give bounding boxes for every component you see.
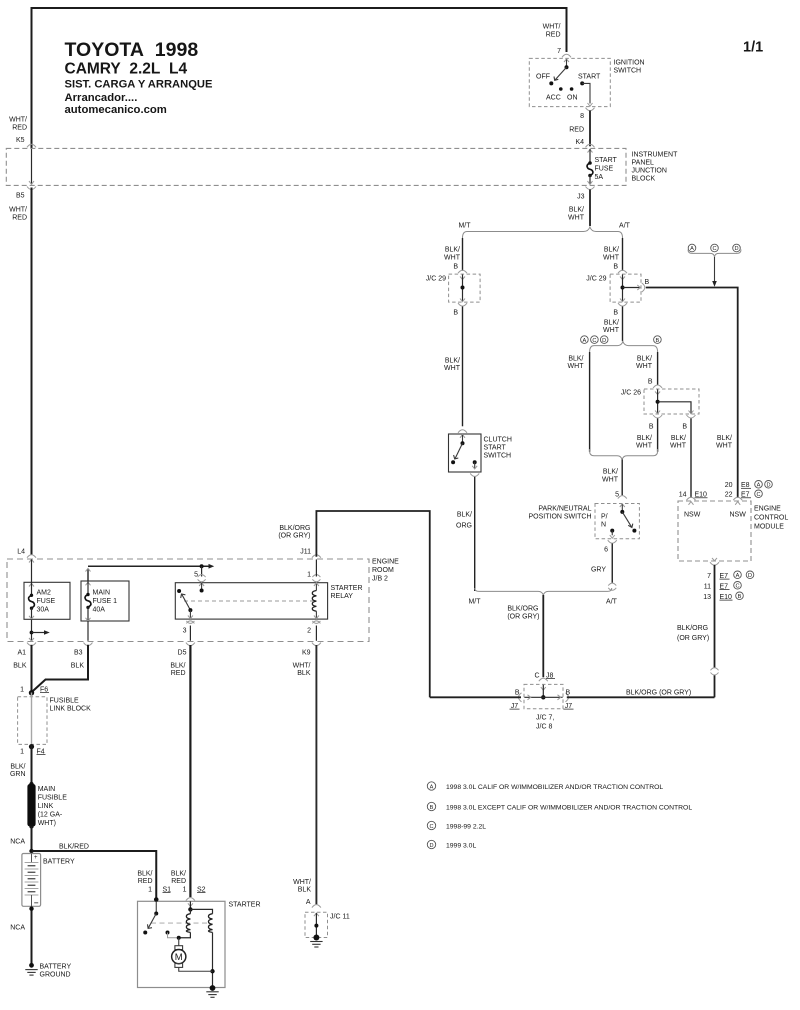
svg-text:A: A xyxy=(690,246,694,252)
wire BLK/WHT merge to park/neutral position switch pin 5 xyxy=(621,460,623,496)
merge brace M/T + A/T xyxy=(475,588,612,595)
svg-text:BLK/: BLK/ xyxy=(603,469,618,476)
svg-text:BLK/: BLK/ xyxy=(569,207,584,214)
svg-text:WHT: WHT xyxy=(636,443,653,450)
svg-text:BATTERY: BATTERY xyxy=(40,964,72,971)
connector cup K4 xyxy=(586,144,595,147)
svg-text:BLK/: BLK/ xyxy=(445,357,460,364)
svg-text:PANEL: PANEL xyxy=(632,160,655,167)
wire BLK/ORG (OR GRY) merge down to J/C 7, J/C 8 xyxy=(542,595,544,677)
svg-text:D5: D5 xyxy=(178,649,187,656)
start fuse 5A inside junction block xyxy=(588,150,593,153)
svg-text:WHT: WHT xyxy=(670,443,687,450)
connector cup B5 below junction block xyxy=(27,187,36,190)
svg-text:N: N xyxy=(601,521,606,528)
grey link wire inside fusible link block xyxy=(31,693,33,745)
ignition switch (dashed box) xyxy=(529,58,610,106)
svg-text:WHT: WHT xyxy=(568,363,585,370)
svg-text:BLK/: BLK/ xyxy=(637,435,652,442)
svg-text:(OR GRY): (OR GRY) xyxy=(278,533,310,540)
svg-text:B: B xyxy=(453,263,458,270)
inline connector on GRY wire xyxy=(608,583,616,586)
svg-text:8: 8 xyxy=(580,113,584,120)
clutch switch output contact xyxy=(473,460,477,464)
svg-text:automecanico.com: automecanico.com xyxy=(65,104,167,116)
svg-text:RED: RED xyxy=(546,31,561,38)
wire battery negative to ground xyxy=(31,906,33,965)
wire BLK/WHT A/T to A-C-D/B split xyxy=(622,307,624,342)
svg-text:FUSE: FUSE xyxy=(37,598,56,605)
ignition switch lever to OFF xyxy=(555,67,567,80)
svg-text:2: 2 xyxy=(307,627,311,634)
contact ON xyxy=(570,87,574,91)
wire BLK/WHT A/T branch down to J/C 29 xyxy=(622,238,624,271)
svg-text:P/: P/ xyxy=(601,513,608,520)
wire BLK/ORG (OR GRY) from ECM down to J/C 7/8 line xyxy=(714,565,716,668)
wire BLK/WHT from J/C 26 right exit to ECM pin 14 xyxy=(690,418,692,497)
svg-text:LINK: LINK xyxy=(38,803,54,810)
circled letters A C D (split left) xyxy=(581,336,589,344)
svg-text:A: A xyxy=(430,784,434,790)
starter box xyxy=(138,901,226,987)
svg-text:K9: K9 xyxy=(302,649,311,656)
svg-text:RED: RED xyxy=(12,125,27,132)
svg-text:7: 7 xyxy=(557,48,561,55)
svg-text:C: C xyxy=(429,824,433,830)
svg-text:(OR GRY): (OR GRY) xyxy=(507,613,539,620)
arrow from A C D bracket down to BLK/WHT line xyxy=(714,257,716,282)
svg-text:LINK BLOCK: LINK BLOCK xyxy=(50,705,92,712)
svg-text:22: 22 xyxy=(725,492,733,499)
svg-text:WHT: WHT xyxy=(444,365,461,372)
svg-text:STARTER: STARTER xyxy=(331,585,363,592)
junction connector J/C 26 xyxy=(644,389,699,414)
contact START xyxy=(580,81,584,85)
svg-text:1: 1 xyxy=(20,686,24,693)
svg-text:BLK/ORG: BLK/ORG xyxy=(507,605,538,612)
svg-text:GRN: GRN xyxy=(10,771,26,778)
legend note C xyxy=(427,821,435,829)
svg-text:M: M xyxy=(175,952,183,963)
wire BLK/WHT from J3 xyxy=(589,190,591,227)
svg-text:WHT/: WHT/ xyxy=(293,662,311,669)
J/C 11 ground xyxy=(313,935,319,941)
svg-text:B: B xyxy=(613,263,618,270)
wire MAIN FUSE 1 top to relay pin 5 feed line xyxy=(87,569,89,581)
contact ACC xyxy=(559,87,563,91)
legend note D xyxy=(427,840,435,848)
wire through junction block at x=31.5 xyxy=(31,149,33,184)
svg-text:WHT/: WHT/ xyxy=(293,879,311,886)
svg-text:FUSE: FUSE xyxy=(595,166,614,173)
svg-text:WHT: WHT xyxy=(716,443,733,450)
svg-text:ACC: ACC xyxy=(546,94,561,101)
connector cup K5 at junction block top xyxy=(27,144,36,147)
svg-text:BLK/: BLK/ xyxy=(171,870,186,877)
svg-text:J/C 29: J/C 29 xyxy=(586,275,606,282)
svg-text:+: + xyxy=(34,855,38,861)
hold-in coil branch xyxy=(190,909,212,913)
inline connector on ECM drop xyxy=(711,668,719,671)
svg-text:BLK/: BLK/ xyxy=(170,663,185,670)
svg-text:POSITION SWITCH: POSITION SWITCH xyxy=(529,513,592,520)
svg-text:1: 1 xyxy=(20,748,24,755)
svg-text:BLK: BLK xyxy=(297,670,311,677)
svg-text:A/T: A/T xyxy=(606,598,618,605)
relay pin 3 output xyxy=(189,610,191,618)
svg-text:BLK/ORG: BLK/ORG xyxy=(279,525,310,532)
svg-text:BLK/: BLK/ xyxy=(137,870,152,877)
svg-text:K4: K4 xyxy=(575,139,584,146)
svg-text:1998-99 2.2L: 1998-99 2.2L xyxy=(446,823,486,830)
svg-text:BLK/: BLK/ xyxy=(457,512,472,519)
main fusible link (12 GA-WHT) thick bar xyxy=(29,782,33,786)
svg-text:TOYOTA 1998: TOYOTA 1998 xyxy=(65,39,199,61)
svg-text:GROUND: GROUND xyxy=(40,971,71,978)
svg-text:D: D xyxy=(748,573,752,579)
svg-text:3: 3 xyxy=(183,627,187,634)
fusible link block (dashed box) xyxy=(18,697,47,745)
svg-text:B: B xyxy=(682,423,687,430)
svg-text:STARTER: STARTER xyxy=(229,901,261,908)
relay pin 2 xyxy=(314,616,319,619)
fuse element AM2 xyxy=(30,594,33,597)
circled letters A C D (top right) xyxy=(688,244,696,252)
connector cup pin 7 xyxy=(562,54,571,57)
svg-text:SWITCH: SWITCH xyxy=(484,453,512,460)
contact OFF xyxy=(549,81,553,85)
svg-text:OFF: OFF xyxy=(536,73,550,80)
svg-text:A: A xyxy=(736,573,740,579)
wire AM2 fuse to A1 with branch arrow xyxy=(31,619,33,641)
svg-text:B: B xyxy=(453,309,458,316)
svg-text:J3: J3 xyxy=(577,193,585,200)
S2 terminal entry xyxy=(188,903,193,906)
relay coil between pins 1 and 2 xyxy=(315,583,317,591)
clutch start switch xyxy=(449,434,482,472)
svg-text:SIST. CARGA Y ARRANQUE: SIST. CARGA Y ARRANQUE xyxy=(65,79,213,91)
TITLEBLOCK xyxy=(65,39,764,116)
svg-text:CLUTCH: CLUTCH xyxy=(484,437,512,444)
junction connector J/C 29 (M/T side) xyxy=(449,274,481,302)
svg-text:B: B xyxy=(613,309,618,316)
svg-text:C: C xyxy=(756,492,760,498)
svg-text:J11: J11 xyxy=(300,548,311,555)
svg-text:B: B xyxy=(648,378,653,385)
svg-text:D: D xyxy=(734,246,738,252)
svg-text:WHT/: WHT/ xyxy=(9,117,27,124)
svg-text:MAIN: MAIN xyxy=(93,590,111,597)
svg-text:B: B xyxy=(515,689,520,696)
svg-text:5: 5 xyxy=(194,571,198,578)
svg-text:NSW: NSW xyxy=(684,511,701,518)
svg-text:D: D xyxy=(766,483,770,489)
svg-text:ORG: ORG xyxy=(456,523,472,530)
svg-text:BLK/: BLK/ xyxy=(10,763,25,770)
legend note A xyxy=(427,782,435,790)
svg-text:START: START xyxy=(595,157,618,164)
svg-text:ENGINE: ENGINE xyxy=(372,559,399,566)
wire BLK from A1 to fusible link block xyxy=(31,645,33,693)
wire WHT/BLK from K9 down to J/C 11 xyxy=(315,645,317,904)
svg-text:WHT: WHT xyxy=(603,254,620,261)
relay pin 5 contact xyxy=(199,583,204,586)
svg-text:BLK/: BLK/ xyxy=(637,355,652,362)
svg-text:1998 3.0L CALIF OR W/IMMOBILIZ: 1998 3.0L CALIF OR W/IMMOBILIZER AND/OR … xyxy=(446,784,663,791)
svg-text:A1: A1 xyxy=(17,649,26,656)
svg-text:START: START xyxy=(578,73,601,80)
svg-text:1999 3.0L: 1999 3.0L xyxy=(446,842,476,849)
svg-text:1: 1 xyxy=(183,886,187,893)
svg-text:IGNITION: IGNITION xyxy=(614,60,645,67)
junction connector J/C 11 (dashed) xyxy=(305,912,328,937)
wire L4 to AM2 fuse xyxy=(31,559,33,582)
svg-text:L4: L4 xyxy=(17,548,25,555)
circled letter B (split right) xyxy=(654,336,662,344)
relay switch contacts xyxy=(177,589,181,593)
wire BLK/WHT to clutch start switch xyxy=(462,307,464,427)
wire BLK/GRN from F4 to main fusible link xyxy=(31,744,33,784)
wire BLK/ORG clutch switch to M/T merge xyxy=(474,477,476,591)
svg-text:FUSE 1: FUSE 1 xyxy=(93,598,118,605)
starter ground xyxy=(210,985,216,991)
svg-text:C: C xyxy=(735,584,739,590)
svg-text:BLK: BLK xyxy=(71,662,85,669)
wire BLK/WHT (A C D) left branch down to merge xyxy=(589,352,591,452)
ignition switch pivot xyxy=(564,59,569,62)
svg-text:B: B xyxy=(566,689,571,696)
svg-text:M/T: M/T xyxy=(458,222,471,229)
svg-text:M/T: M/T xyxy=(468,598,481,605)
svg-text:AM2: AM2 xyxy=(37,590,52,597)
battery ground xyxy=(29,963,34,968)
svg-text:BLK/RED: BLK/RED xyxy=(59,844,89,851)
ECM pin 14 / E10 entry xyxy=(687,497,696,500)
wire WHT/RED battery feed: left riser and top run to ignition switch xyxy=(32,8,567,148)
wire BLK/ORG (OR GRY) from J/C 7/8 right to ECM drop xyxy=(567,696,715,698)
svg-text:B3: B3 xyxy=(74,649,83,656)
wire from J/C7/8 left B pin to relay J11 riser (junction at corner) xyxy=(430,696,521,698)
svg-text:7: 7 xyxy=(707,573,711,580)
svg-text:RED: RED xyxy=(569,126,584,133)
svg-text:WHT: WHT xyxy=(602,476,619,483)
svg-text:BLK/ORG (OR GRY): BLK/ORG (OR GRY) xyxy=(626,690,691,697)
svg-text:A: A xyxy=(757,483,761,489)
svg-text:D: D xyxy=(602,338,606,344)
svg-text:(OR GRY): (OR GRY) xyxy=(677,635,709,642)
svg-text:C: C xyxy=(712,246,716,252)
svg-text:BLK: BLK xyxy=(298,886,312,893)
svg-text:JUNCTION: JUNCTION xyxy=(632,168,667,175)
wire BLK/RED from D5 down to starter S2 xyxy=(189,645,191,897)
svg-text:20: 20 xyxy=(725,482,733,489)
svg-text:INSTRUMENT: INSTRUMENT xyxy=(632,152,679,159)
relay pin 1 xyxy=(314,583,319,586)
svg-text:RED: RED xyxy=(171,878,186,885)
legend note B xyxy=(427,802,435,810)
svg-text:WHT: WHT xyxy=(444,254,461,261)
svg-text:40A: 40A xyxy=(93,607,106,614)
svg-text:RED: RED xyxy=(171,670,186,677)
wire BLK/WHT M/T branch down to J/C 29 xyxy=(462,238,464,271)
wire GRY from pin 6 xyxy=(611,544,613,583)
svg-text:J/B 2: J/B 2 xyxy=(372,576,388,583)
merge brace of BLK/WHT wires above park/neutral switch xyxy=(590,449,658,460)
svg-text:D: D xyxy=(429,843,433,849)
split brace below A/T wire xyxy=(590,342,658,352)
svg-text:GRY: GRY xyxy=(591,566,606,573)
wire WHT/RED left riser down to engine room J/B 2 pin L4 xyxy=(31,188,33,556)
svg-text:RED: RED xyxy=(138,878,153,885)
svg-text:WHT: WHT xyxy=(603,327,620,334)
starter internal dashed coupling line xyxy=(151,922,210,924)
svg-text:11: 11 xyxy=(704,583,711,590)
svg-text:WHT/: WHT/ xyxy=(9,207,27,214)
svg-text:1: 1 xyxy=(148,886,152,893)
svg-text:A: A xyxy=(583,338,587,344)
svg-text:BLK/: BLK/ xyxy=(717,435,732,442)
connector cup pin 8 xyxy=(586,108,595,111)
svg-text:NCA: NCA xyxy=(10,925,25,932)
svg-text:NCA: NCA xyxy=(10,838,25,845)
svg-text:BATTERY: BATTERY xyxy=(43,859,75,866)
junction connector J/C 7, J/C 8 (dashed) xyxy=(524,684,563,708)
junction node F6 xyxy=(29,690,34,695)
ECM pins 20 E8 / 22 E7 entry xyxy=(733,497,742,500)
instrument panel junction block (dashed) xyxy=(6,148,626,185)
svg-text:J/C 26: J/C 26 xyxy=(621,389,641,396)
engine room J/B 2 (dashed box) xyxy=(7,559,369,642)
split brace to M/T and A/T branches xyxy=(463,227,623,238)
svg-text:PARK/NEUTRAL: PARK/NEUTRAL xyxy=(538,505,591,512)
svg-text:5A: 5A xyxy=(595,174,604,181)
main fuse 1 40A box xyxy=(81,581,129,621)
park/neutral switch lever xyxy=(622,512,631,527)
connector cup J3 xyxy=(586,187,595,190)
svg-text:B: B xyxy=(645,279,650,286)
AM2 fuse 30A box xyxy=(24,582,70,619)
svg-text:WHT): WHT) xyxy=(38,820,56,827)
battery xyxy=(22,854,41,907)
junction connector J/C 29 (A/T side) xyxy=(610,274,641,302)
svg-text:WHT: WHT xyxy=(636,363,653,370)
svg-text:BLK/: BLK/ xyxy=(445,247,460,254)
wire BLK/WHT from J/C 26 left exit to merge xyxy=(657,418,659,451)
svg-text:BLK/ORG: BLK/ORG xyxy=(677,625,708,632)
wire BLK/WHT to ECM pins 20/22 (horizontal then down) xyxy=(646,288,738,498)
clutch switch lever xyxy=(455,443,463,459)
bracket under A C D xyxy=(688,250,741,258)
branch wire B from J/C 29 to right xyxy=(623,287,641,289)
starter relay box xyxy=(175,583,327,619)
relay internal dashed coupling line xyxy=(184,600,313,602)
svg-text:J/C 11: J/C 11 xyxy=(330,913,350,920)
pin B3 exit of MAIN FUSE 1 xyxy=(86,618,91,621)
wire RED ignition to junction block xyxy=(589,111,591,147)
svg-text:K5: K5 xyxy=(16,137,25,144)
svg-text:WHT: WHT xyxy=(568,214,585,221)
solenoid fixed contact xyxy=(166,931,170,935)
svg-text:NSW: NSW xyxy=(730,511,747,518)
svg-text:Arrancador....: Arrancador.... xyxy=(65,92,138,104)
svg-text:(12 GA-: (12 GA- xyxy=(38,812,63,819)
battery plates xyxy=(25,863,39,896)
svg-text:RELAY: RELAY xyxy=(331,593,354,600)
svg-text:B5: B5 xyxy=(16,193,25,200)
svg-text:1998 3.0L EXCEPT CALIF OR W/IM: 1998 3.0L EXCEPT CALIF OR W/IMMOBILIZER … xyxy=(446,804,692,811)
pull-in coil xyxy=(189,909,191,913)
svg-text:1: 1 xyxy=(307,571,311,578)
svg-text:CONTROL: CONTROL xyxy=(754,514,788,521)
svg-text:30A: 30A xyxy=(37,607,50,614)
svg-text:C: C xyxy=(592,338,596,344)
starter motor xyxy=(178,938,180,946)
svg-text:BLK/: BLK/ xyxy=(671,435,686,442)
wire from START contact out of ignition switch xyxy=(582,83,590,103)
svg-text:FUSIBLE: FUSIBLE xyxy=(50,697,80,704)
svg-text:B: B xyxy=(649,423,654,430)
svg-text:BLK/: BLK/ xyxy=(604,247,619,254)
svg-text:ROOM: ROOM xyxy=(372,567,394,574)
svg-text:A: A xyxy=(306,899,311,906)
svg-text:FUSIBLE: FUSIBLE xyxy=(38,795,68,802)
svg-text:SWITCH: SWITCH xyxy=(614,68,642,75)
svg-text:J/C 8: J/C 8 xyxy=(536,723,552,730)
svg-text:14: 14 xyxy=(679,492,687,499)
svg-text:RED: RED xyxy=(12,214,27,221)
svg-text:BLK/: BLK/ xyxy=(568,355,583,362)
wire BLK/RED battery to starter S1 xyxy=(32,851,157,901)
svg-text:J/C 7,: J/C 7, xyxy=(536,714,554,721)
svg-text:C: C xyxy=(534,672,539,679)
svg-text:BLOCK: BLOCK xyxy=(632,176,656,183)
svg-text:ENGINE: ENGINE xyxy=(754,505,781,512)
fuse element MAIN FUSE 1 xyxy=(86,593,89,596)
svg-text:13: 13 xyxy=(703,594,711,601)
svg-text:B: B xyxy=(430,805,434,811)
wire BLK/WHT (B) right branch down to J/C 26 xyxy=(657,352,659,385)
svg-text:WHT/: WHT/ xyxy=(543,24,561,31)
wire BLK from B3 joining A1 wire xyxy=(32,645,89,693)
S1 terminal and solenoid switch xyxy=(154,897,159,902)
svg-text:MAIN: MAIN xyxy=(38,786,56,793)
svg-text:6: 6 xyxy=(604,546,608,553)
park/neutral switch output contact pin 6 xyxy=(610,529,614,533)
svg-text:BLK: BLK xyxy=(13,662,27,669)
engine control module (dashed box) xyxy=(678,501,751,561)
svg-text:START: START xyxy=(484,445,507,452)
svg-text:A/T: A/T xyxy=(619,222,631,229)
svg-text:B: B xyxy=(656,338,660,344)
svg-text:MODULE: MODULE xyxy=(754,523,784,530)
node F4 xyxy=(29,744,34,749)
svg-text:ON: ON xyxy=(567,94,578,101)
svg-text:J/C 29: J/C 29 xyxy=(426,275,446,282)
svg-text:B: B xyxy=(738,594,742,600)
wire to battery + junction to starter S1 xyxy=(31,827,33,854)
svg-text:BLK/: BLK/ xyxy=(604,320,619,327)
branch down to relay pin 5 xyxy=(201,566,203,576)
svg-text:CAMRY 2.2L L4: CAMRY 2.2L L4 xyxy=(65,61,188,78)
park/neutral position switch (dashed box) xyxy=(595,504,639,539)
ECM bottom exit pins 7/11/13 xyxy=(712,558,717,561)
svg-text:1/1: 1/1 xyxy=(743,40,763,56)
